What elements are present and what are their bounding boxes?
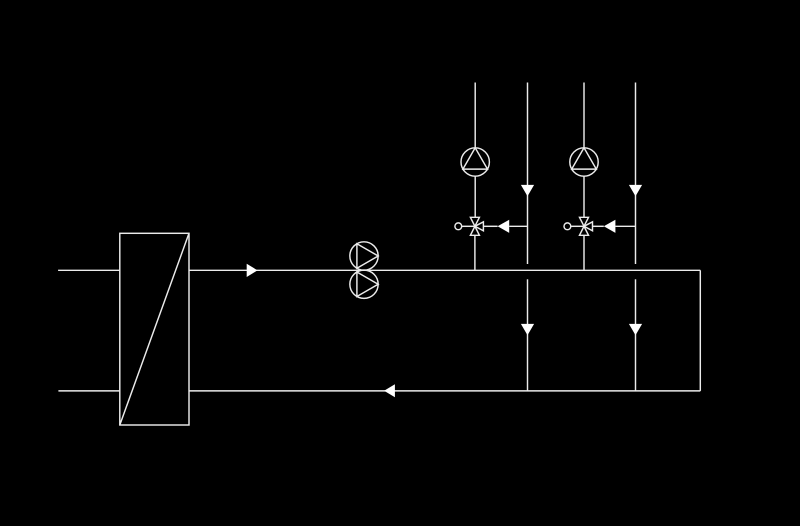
wire upper supply left stub — [58, 269, 120, 271]
wire pump P3 to valve V1 — [474, 176, 476, 217]
flow arrow into valve V1 (left) — [498, 220, 510, 233]
wire riser 3 top — [583, 83, 585, 148]
flow arrow return (left) — [384, 384, 395, 397]
pump P4 — [570, 148, 598, 176]
wire riser 2 lower segment — [527, 279, 529, 391]
wire upper supply header — [189, 269, 700, 271]
wire branch valve V1 to riser 2 — [483, 225, 527, 227]
flow arrow riser 2 upper (down) — [521, 185, 534, 196]
flow arrow riser 2 lower (down) — [521, 324, 534, 335]
pump P1 (twin head, upper circle) — [350, 242, 378, 270]
flow arrow riser 4 lower (down) — [629, 324, 642, 335]
pump P2 (twin head, lower circle) — [350, 270, 378, 298]
wire riser 4 upper segment — [635, 83, 637, 265]
wire riser 2 upper segment — [527, 83, 529, 265]
3-way valve V1 — [470, 217, 483, 235]
wire lower return left stub — [58, 390, 119, 392]
wire branch valve V2 to riser 4 — [593, 225, 636, 227]
actuator of valve V1 — [455, 223, 475, 230]
flow arrow supply (right) — [247, 264, 258, 277]
heat exchanger HX1 — [120, 233, 189, 425]
3-way valve V2 — [580, 217, 593, 235]
wire riser 1 top — [474, 83, 476, 148]
wire valve V1 to supply header — [474, 235, 476, 270]
flow arrow riser 4 upper (down) — [629, 185, 642, 196]
pump P3 — [461, 148, 489, 176]
wire right header riser — [699, 270, 701, 391]
wire riser 4 lower segment — [635, 279, 637, 391]
wire pump P4 to valve V2 — [583, 176, 585, 217]
wire lower return header — [189, 390, 700, 392]
wire valve V2 to supply header — [583, 235, 585, 270]
flow arrow into valve V2 (left) — [604, 220, 616, 233]
actuator of valve V2 — [564, 223, 584, 230]
